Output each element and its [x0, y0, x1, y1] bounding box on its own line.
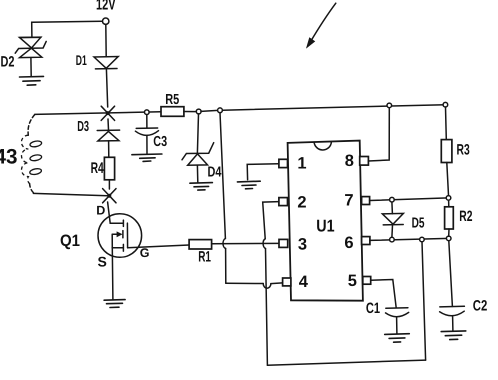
node pin8 branch junction [387, 103, 392, 108]
capacitor C2 [440, 306, 465, 330]
svg-text:R3: R3 [457, 142, 470, 159]
wire terminal to D1 [105, 24, 107, 56]
svg-text:43: 43 [0, 145, 18, 168]
label D5 [412, 216, 425, 232]
ground below D4 [190, 183, 213, 191]
wire top corner to R3 [445, 107, 448, 140]
wire reset branch horizontal to pin4 with hop [226, 283, 283, 288]
node D5 bottom junction [390, 237, 395, 242]
label G gate [140, 246, 150, 260]
pin 6 stub [362, 237, 370, 245]
wire D3 to R4 [108, 141, 110, 157]
svg-text:4: 4 [299, 273, 309, 291]
op-amp U1 body [288, 141, 363, 301]
wire dashed coil bottom lead [30, 184, 34, 193]
wire D4 lead [197, 114, 198, 153]
svg-text:1: 1 [297, 154, 306, 172]
wire D5 top lead [391, 202, 394, 214]
pin number 4 [299, 273, 309, 291]
wire bottom rail up to pin6 net [422, 242, 426, 360]
wire pin2 branch vertical with hop to bottom rail [263, 202, 279, 366]
label D2 [1, 53, 15, 70]
wire pin7 line [370, 198, 449, 201]
svg-text:D1: D1 [76, 52, 87, 68]
svg-text:D4: D4 [208, 164, 222, 180]
wire X2 to Q1 drain [108, 202, 124, 223]
pin number 6 [344, 234, 353, 252]
node R2 bottom junction [446, 236, 451, 241]
svg-text:D2: D2 [1, 53, 15, 70]
wire X1 to D3 [107, 119, 110, 130]
wire top rail to right corner [222, 105, 445, 111]
ground below C1 [385, 334, 410, 343]
pin 4 stub [283, 278, 291, 286]
svg-text:R4: R4 [91, 160, 104, 177]
pin 8 stub [360, 157, 369, 166]
ground at pin1 [237, 181, 260, 189]
label R4 [91, 160, 104, 177]
label C3 [153, 134, 167, 150]
svg-text:7: 7 [344, 191, 353, 209]
ground below D2 [20, 76, 44, 85]
inductor 43 coil [21, 135, 42, 183]
svg-text:C1: C1 [366, 300, 380, 317]
wire Q1 gate to R1 [128, 245, 190, 248]
diode D5 [382, 213, 403, 237]
resistor R3 [441, 140, 452, 163]
wire 12V to D2 branch [32, 21, 103, 36]
node D4 tap junction [196, 109, 201, 114]
label D3 [77, 119, 89, 135]
svg-text:8: 8 [345, 152, 354, 170]
svg-text:Q1: Q1 [60, 232, 80, 250]
node R3 corner junction [443, 102, 448, 107]
svg-text:C3: C3 [153, 134, 167, 150]
wire pin8 to top rail [368, 108, 389, 161]
pin 1 stub [279, 159, 288, 167]
label C2 [473, 298, 488, 315]
svg-text:R5: R5 [165, 92, 179, 108]
svg-text:C2: C2 [473, 298, 488, 315]
ground below Q1 [104, 300, 125, 308]
ground below C3 [132, 154, 162, 161]
node D5 top junction [390, 197, 395, 202]
label C1 [366, 300, 380, 317]
svg-text:5: 5 [348, 272, 357, 290]
pin number 2 [297, 194, 306, 212]
svg-text:R2: R2 [459, 208, 472, 225]
wire pin6 junction down to C2 [449, 241, 453, 307]
node X1 junction [101, 106, 114, 120]
diode D2 (bidirectional TVS) [15, 37, 46, 76]
svg-text:D: D [96, 204, 105, 218]
label D4 [208, 164, 222, 180]
svg-text:3: 3 [298, 236, 307, 254]
resistor R5 [161, 107, 184, 117]
wire junction to junction [201, 110, 218, 111]
svg-text:6: 6 [344, 234, 353, 252]
wire pin1 to ground [247, 164, 279, 180]
resistor R2 [445, 207, 454, 229]
node C3 tap junction [145, 110, 150, 115]
svg-text:D3: D3 [77, 119, 89, 135]
svg-text:G: G [140, 246, 150, 260]
wire coil bottom to node X2 [33, 193, 107, 195]
pin 5 stub [363, 277, 371, 285]
terminal 12V [103, 18, 109, 24]
pin 7 stub [362, 197, 370, 205]
wire pin6 line [370, 238, 449, 240]
svg-text:U1: U1 [316, 217, 334, 236]
node X2 junction [103, 189, 116, 203]
wire Q1 source to ground [111, 248, 114, 299]
node reset branch junction [218, 108, 223, 113]
resistor R1 [189, 240, 212, 249]
svg-text:12V: 12V [96, 0, 116, 14]
wire R4 to node X2 [108, 180, 110, 189]
label 43 [0, 145, 18, 168]
ground below C2 [441, 331, 466, 340]
wire junction to C3 [146, 115, 148, 128]
label R2 [459, 208, 472, 225]
pin number 5 [348, 272, 357, 290]
label 12V [96, 0, 116, 14]
svg-text:D5: D5 [412, 216, 425, 232]
wire R2 to pin6 junction [448, 229, 450, 236]
node R3 R2 junction [446, 196, 451, 201]
label S source [98, 254, 107, 270]
wire bottom rail [267, 360, 425, 365]
wire junction to R2 [448, 200, 450, 207]
pin 2 stub [279, 198, 288, 206]
label R3 [457, 142, 470, 159]
pointer arrow [307, 3, 336, 47]
label D1 [76, 52, 87, 68]
label R5 [165, 92, 179, 108]
label R1 [198, 248, 211, 265]
transistor Q1 MOSFET [98, 214, 142, 258]
svg-text:2: 2 [297, 194, 306, 212]
wire R3 to pin7 junction [447, 163, 449, 196]
wire X1 horizontal rail to R5 [35, 112, 161, 115]
node bottom loop junction [420, 237, 425, 242]
svg-text:S: S [98, 254, 107, 270]
label D drain [96, 204, 105, 218]
pin number 3 [298, 236, 307, 254]
pin number 8 [345, 152, 354, 170]
pin 3 stub [279, 239, 288, 247]
wire pin5 to C1 [371, 280, 397, 308]
svg-text:R1: R1 [198, 248, 211, 265]
diode D1 [94, 57, 118, 69]
capacitor C1 [386, 308, 409, 334]
diode D3 [97, 130, 119, 141]
label Q1 [60, 232, 80, 250]
pin number 7 [344, 191, 353, 209]
pin number 1 [297, 154, 306, 172]
resistor R4 [104, 157, 114, 180]
wire D1 to node X1 [106, 69, 107, 107]
diode D4 zener [182, 143, 214, 183]
wire R1 to U1 pin3 [212, 242, 279, 244]
capacitor C3 [135, 128, 158, 154]
wire reset branch vertical with hop over R1 wire [220, 113, 226, 284]
label U1 [316, 217, 334, 236]
wire R5 to D4 junction [184, 111, 197, 113]
wire dashed coil top lead [28, 115, 35, 135]
